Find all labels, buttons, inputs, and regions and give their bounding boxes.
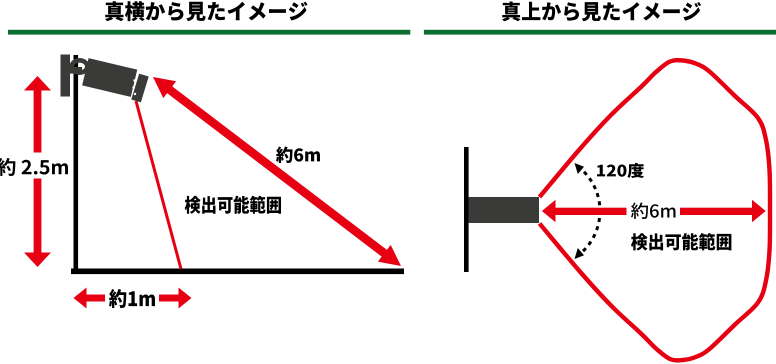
- label 約6m (right): [631, 203, 676, 220]
- horizontal red double arrow 6m (right): [542, 200, 766, 222]
- vertical red double arrow 2.5m: [24, 76, 51, 267]
- sensor unit (top view): [469, 197, 540, 223]
- sensor cap led dots: [133, 79, 135, 81]
- label 約6m (left): [276, 147, 320, 164]
- sensor body: [82, 58, 137, 97]
- left title 真横から見たイメージ: [105, 1, 308, 21]
- dashed 120deg arc: [578, 166, 600, 255]
- right title 真上から見たイメージ: [502, 2, 701, 22]
- wall line (left): [74, 55, 79, 274]
- arc arrowhead bottom: [575, 248, 585, 259]
- label 約 2.5m: [0, 158, 68, 176]
- floor line: [71, 269, 404, 275]
- label 検出可能範囲 (left): [185, 196, 281, 214]
- arc arrowhead top: [575, 163, 585, 174]
- white box behind 2.5m label: [0, 153, 71, 179]
- label 120度: [597, 163, 644, 178]
- wall line (right): [464, 147, 469, 272]
- white box behind 1m label: [105, 287, 159, 310]
- sensor bracket bar: [67, 67, 82, 74]
- label 検出可能範囲 (right): [631, 233, 731, 251]
- right green underline: [424, 30, 776, 35]
- sensor front cap: [131, 74, 148, 103]
- sensor bracket ring: [72, 60, 88, 72]
- label 約1m: [109, 289, 155, 308]
- thin red beam line: [136, 101, 181, 269]
- sensor mount bar: [61, 55, 71, 97]
- detection area teardrop: [540, 60, 771, 360]
- diagonal red double arrow 6m: [153, 77, 401, 266]
- horizontal red double arrow 1m: [74, 288, 192, 309]
- left green underline: [8, 30, 410, 35]
- white box behind right 6m label: [627, 200, 681, 223]
